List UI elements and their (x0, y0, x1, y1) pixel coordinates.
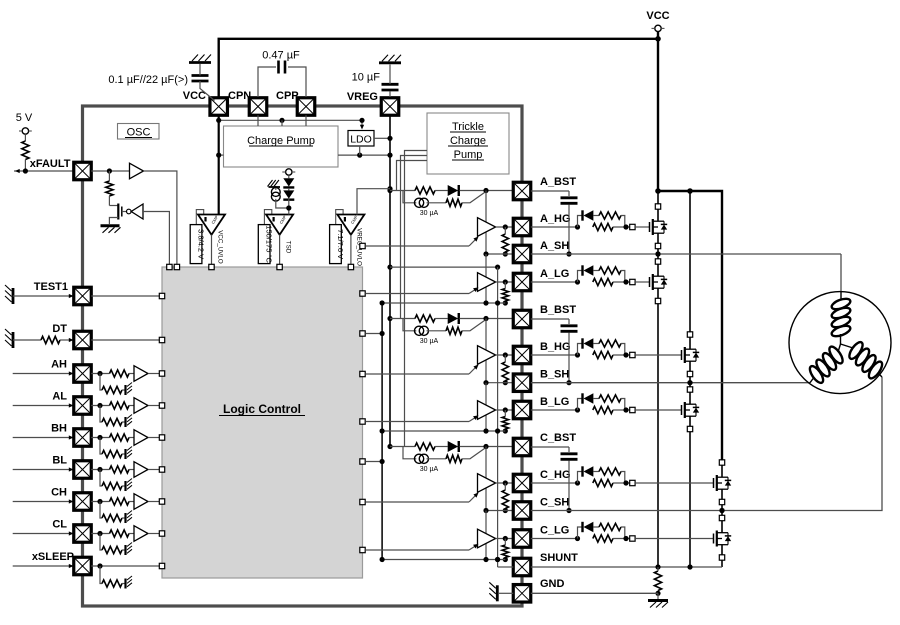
buffer CH (129, 501, 134, 503)
pin C_BST (513, 438, 531, 456)
svg-text:TEST1: TEST1 (34, 281, 68, 293)
wire C_HG output (496, 482, 514, 484)
svg-text:TSD: TSD (284, 241, 291, 254)
svg-text:CH: CH (51, 487, 67, 499)
pin AL (74, 397, 92, 415)
svg-text:B_HG: B_HG (540, 341, 571, 353)
transistor C high-side FET (635, 482, 713, 484)
resistor B_LG gate fast (599, 395, 621, 402)
terminal A_HG gate (630, 224, 635, 229)
wire A LG rail (382, 302, 505, 304)
wire AL internal (91, 405, 109, 407)
VCC supply terminal (655, 25, 661, 31)
wire VCC top rail (657, 32, 659, 191)
wire SHUNT line (531, 566, 722, 568)
wire C_SH to motor (531, 377, 882, 511)
resistor CH series (110, 498, 130, 505)
wire driver rail chain vertical (497, 267, 499, 559)
terminal B_LG gate (630, 407, 635, 412)
resistor AH series (110, 370, 130, 377)
capacitor 0.1uF//22uF at VCC (192, 74, 209, 77)
svg-text:30 µA: 30 µA (420, 466, 439, 473)
svg-text:B_LG: B_LG (540, 396, 569, 408)
wire SHUNT internal (498, 566, 514, 568)
wire A_SH to motor (531, 253, 841, 255)
buffer CL (129, 533, 134, 535)
ground AH pulldown (122, 389, 125, 391)
OSC block (118, 124, 160, 140)
svg-text:Trickle: Trickle (452, 121, 484, 133)
wire CH input (13, 501, 73, 503)
ground AL pulldown (122, 421, 125, 423)
pin xFAULT (74, 162, 92, 180)
pin C_HG (513, 474, 531, 492)
pin CH (74, 493, 92, 511)
wire LDO input with arrow (361, 120, 363, 127)
svg-text:BH: BH (51, 423, 67, 435)
wire C_LG output (496, 538, 514, 540)
wire xSLEEP internal (91, 565, 159, 567)
driver A_HG (485, 191, 487, 255)
svg-text:AL: AL (52, 391, 67, 403)
resistor AL series (110, 402, 130, 409)
wire VREG to VREG_UVLO input (357, 189, 390, 215)
driver A_LG (485, 254, 487, 303)
wire DT to logic (91, 339, 159, 341)
resistor C bootstrap (415, 443, 435, 450)
node B BST junction (483, 316, 488, 321)
svg-text:xSLEEP: xSLEEP (32, 551, 74, 563)
pin BH (74, 429, 92, 447)
wire B_LG output (496, 409, 514, 411)
resistor B bootstrap (415, 315, 435, 322)
wire C low source down (721, 560, 723, 567)
node C SH internal (486, 510, 513, 512)
ground CH pulldown (122, 517, 125, 519)
svg-text:7.1/7.6 V: 7.1/7.6 V (336, 229, 345, 259)
ground for VCC cap (189, 61, 211, 64)
wire A_HG output (496, 226, 514, 228)
wire A_LG output (496, 281, 514, 283)
resistor BL pulldown (100, 470, 102, 487)
pin DT (74, 331, 92, 349)
svg-text:C_BST: C_BST (540, 432, 576, 444)
ground BL pulldown (122, 485, 125, 487)
wire A phase node (657, 249, 659, 259)
svg-text:OSC: OSC (127, 127, 151, 139)
resistor C_LG pulldown (502, 545, 508, 558)
resistor C_HG gate fast (599, 468, 621, 475)
resistor A_LG gate fast (599, 267, 621, 274)
current source B 30uA (403, 319, 416, 331)
ground xFAULT FET (101, 224, 120, 227)
wire BL internal (91, 469, 109, 471)
terminal A_LG gate (630, 279, 635, 284)
wire AL input (13, 405, 73, 407)
svg-text:VREG: VREG (347, 91, 378, 103)
capacitor C bootstrap (561, 452, 578, 455)
wire B phase node (689, 377, 691, 387)
pin TEST1 (74, 287, 92, 305)
ground xSLEEP pulldown (122, 583, 125, 585)
svg-text:CPN: CPN (228, 90, 251, 102)
wire charge-pump feed rail (219, 119, 362, 121)
capacitor A bootstrap (561, 196, 578, 199)
wire CL internal (91, 533, 109, 535)
inductor phase C coil (879, 374, 883, 378)
wire AH to logic (148, 373, 159, 375)
resistor DT (13, 339, 41, 341)
ground BH pulldown (122, 453, 125, 455)
wire A_LG input from logic (360, 291, 365, 296)
transistor B high-side FET (635, 354, 681, 356)
wire C_HG input from logic (360, 499, 365, 504)
pin A_BST (513, 182, 531, 200)
wire AH input (13, 373, 73, 375)
buffer AH (129, 373, 134, 375)
svg-text:DT: DT (52, 323, 67, 335)
svg-text:0.47 µF: 0.47 µF (262, 50, 300, 62)
svg-text:Pump: Pump (454, 149, 483, 161)
wire C phase node (721, 505, 723, 516)
pin A_HG (513, 218, 531, 236)
svg-text:A_LG: A_LG (540, 268, 569, 280)
node shunt bottom (655, 591, 660, 596)
diode A_HG gate (581, 210, 583, 220)
transistor A low-side FET (635, 281, 649, 283)
wire GND line (531, 592, 658, 594)
svg-text:B_SH: B_SH (540, 369, 569, 381)
resistor BH pulldown (100, 438, 102, 455)
pin A_SH (513, 245, 531, 263)
wire CL input (13, 533, 73, 535)
wire logic stub B (360, 331, 365, 336)
pin B_HG (513, 346, 531, 364)
wire CH to logic (148, 501, 159, 503)
pin A_LG (513, 273, 531, 291)
wire BH internal (91, 437, 109, 439)
wire A_HG input from logic (360, 243, 365, 248)
svg-text:C_HG: C_HG (540, 469, 571, 481)
wire VCC internal feed (218, 115, 220, 214)
wire B LG rail (382, 430, 505, 432)
wire TEST1 to logic (91, 295, 159, 297)
motor 3-phase (789, 292, 891, 394)
node B SH internal (486, 382, 513, 384)
pin CL (74, 525, 92, 543)
wire TEST1 input (13, 295, 73, 297)
wire logic signal bus vertical (381, 303, 383, 560)
wire AH internal (91, 373, 109, 375)
Trickle Charge Pump block (427, 113, 509, 174)
transistor C low-side FET (635, 538, 713, 540)
resistor R-5V pullup (24, 134, 26, 141)
diode C_HG gate (581, 466, 583, 476)
driver B_LG (485, 383, 487, 431)
resistor B_HG gate (593, 351, 613, 358)
IC package outline U1 (83, 106, 523, 606)
buffer xFAULT sense (130, 163, 144, 179)
wire C bootstrap cap (531, 446, 569, 448)
wire inverter input from logic (143, 212, 169, 265)
resistor shunt (654, 571, 661, 591)
pin CPP (297, 98, 315, 116)
wire B_LG gate net (531, 409, 578, 411)
pin AH (74, 365, 92, 383)
resistor AH pulldown (100, 374, 102, 391)
capacitor 10uF at VREG (389, 92, 391, 98)
comparator TSD 150/175C (264, 210, 271, 225)
wire C_LG gate net (531, 538, 578, 540)
terminal C_LG gate (630, 536, 635, 541)
svg-text:LDO: LDO (350, 134, 372, 146)
svg-text:C_LG: C_LG (540, 525, 569, 537)
wire charge pump out to VREG rail (338, 154, 390, 156)
svg-text:GND: GND (540, 578, 565, 590)
wire trickle output A (397, 161, 428, 191)
driver C_LG (485, 511, 487, 560)
pin B_SH (513, 374, 531, 392)
diode C_LG gate (581, 522, 583, 532)
wire trickle output C (405, 151, 428, 447)
pin C_LG (513, 530, 531, 548)
svg-text:30 µA: 30 µA (420, 338, 439, 345)
wire A bootstrap cap (531, 190, 569, 192)
svg-text:A_SH: A_SH (540, 240, 569, 252)
terminal C_HG gate (630, 480, 635, 485)
resistor A 30uA path (446, 199, 462, 206)
node C BST junction (483, 444, 488, 449)
svg-text:CPP: CPP (276, 90, 299, 102)
wire CPN to charge pump (257, 115, 259, 126)
resistor A_LG gate (593, 278, 613, 285)
wire logic stub C (360, 459, 365, 464)
wire trickle output B (401, 156, 428, 319)
svg-text:5 V: 5 V (16, 112, 33, 124)
svg-text:CL: CL (52, 519, 67, 531)
terminal circle above TSD diodes (286, 169, 292, 175)
wire CL to logic (148, 533, 159, 535)
wire VREG-to-driver rail horizontal (390, 266, 498, 268)
resistor A_HG gate (593, 223, 613, 230)
wire buffer to logic (144, 171, 177, 264)
svg-text:150/175 °C: 150/175 °C (265, 225, 274, 263)
wire CPP to charge pump (305, 115, 307, 126)
svg-text:BL: BL (52, 455, 67, 467)
wire BL input (13, 469, 73, 471)
driver C_HG (485, 447, 487, 511)
resistor B_LG gate (593, 406, 613, 413)
wire A_HG gate net (531, 226, 578, 228)
svg-text:SHUNT: SHUNT (540, 552, 578, 564)
resistor A_HG pulldown (502, 234, 508, 252)
LDO block (348, 131, 374, 147)
buffer AL (129, 405, 134, 407)
wire LDO out to VREG rail (374, 137, 390, 139)
svg-text:A_BST: A_BST (540, 176, 576, 188)
svg-text:0.1 µF//22 µF(>): 0.1 µF//22 µF(>) (108, 74, 188, 86)
resistor BL series (110, 466, 130, 473)
diode A bootstrap (448, 185, 458, 196)
current source TSD bias (271, 188, 280, 197)
wire B bootstrap feed (390, 318, 415, 320)
inverter xFAULT gate drive (127, 209, 132, 214)
svg-text:xFAULT: xFAULT (30, 158, 71, 170)
wire VCC rail to half bridges (658, 191, 722, 460)
pin B_BST (513, 310, 531, 328)
pin VREG (381, 98, 399, 116)
Logic Control block (162, 267, 363, 578)
ground hatch TSD bias (268, 180, 273, 187)
diode C bootstrap (448, 441, 458, 452)
resistor C_HG pulldown (502, 490, 508, 509)
pin C_SH (513, 502, 531, 520)
resistor C_LG gate (593, 535, 613, 542)
ground TEST1 (12, 288, 15, 304)
node VCC-top junction (655, 36, 661, 42)
resistor A bootstrap (415, 187, 435, 194)
resistor A_LG pulldown (502, 289, 508, 302)
svg-text:C_SH: C_SH (540, 497, 569, 509)
wire B_LG input from logic (360, 419, 365, 424)
pin CPN (249, 98, 267, 116)
wire xSLEEP input (13, 565, 73, 567)
inductor phase A coil (840, 292, 842, 300)
diode D2 TSD chain (288, 188, 290, 190)
node A SH internal (486, 253, 513, 255)
buffer BL (129, 469, 134, 471)
terminal B_HG gate (630, 352, 635, 357)
wire B_HG gate net (531, 354, 578, 356)
resistor AL pulldown (100, 406, 102, 423)
comparator VCC_UVLO 3.8/4.2V (196, 210, 203, 225)
svg-text:B_BST: B_BST (540, 304, 576, 316)
pin xSLEEP (74, 557, 92, 575)
ground DT (12, 332, 15, 348)
wire B bootstrap cap (531, 318, 569, 320)
diode D1 TSD chain (288, 175, 290, 178)
diode B_HG gate (581, 338, 583, 348)
svg-text:Logic Control: Logic Control (223, 402, 301, 416)
wire A low source down (657, 304, 659, 567)
ground GND pin (496, 585, 499, 601)
resistor B_HG gate fast (599, 340, 621, 347)
wire BL to logic (148, 469, 159, 471)
wire C bootstrap feed (390, 446, 415, 448)
resistor A_HG gate fast (599, 212, 621, 219)
wire xFAULT internal (91, 170, 129, 172)
svg-text:Charge Pump: Charge Pump (247, 135, 315, 147)
comparator VREG_UVLO 7.1/7.6V (336, 210, 343, 225)
pin VCC (210, 98, 228, 116)
diode A_LG gate (581, 265, 583, 275)
svg-text:A_HG: A_HG (540, 213, 571, 225)
wire TSD node (276, 199, 289, 208)
pin SHUNT (513, 558, 531, 576)
wire VREG rail vertical (389, 115, 391, 446)
capacitor 0.47uF CPN-CPP (258, 67, 276, 97)
resistor C_HG gate (593, 479, 613, 486)
ground shunt (657, 593, 659, 599)
resistor B_LG pulldown (502, 417, 508, 430)
diode B_LG gate (581, 393, 583, 403)
Charge Pump block (224, 126, 339, 167)
wire C_HG gate net (531, 482, 578, 484)
wire BH to logic (148, 437, 159, 439)
resistor xSLEEP pulldown (100, 566, 102, 584)
wire CH internal (91, 501, 109, 503)
current source A 30uA (403, 191, 416, 203)
resistor C 30uA path (446, 455, 462, 462)
resistor CL series (110, 530, 130, 537)
resistor CL pulldown (100, 534, 102, 551)
transistor B low-side FET (635, 409, 681, 411)
resistor B_HG pulldown (502, 362, 508, 381)
wire AL to logic (148, 405, 159, 407)
wire C LG rail (382, 559, 505, 561)
wire A bootstrap feed (390, 190, 415, 192)
wire C_LG input from logic (360, 547, 365, 552)
svg-text:VCC: VCC (183, 90, 206, 102)
resistor CH pulldown (100, 502, 102, 519)
capacitor B bootstrap (561, 324, 578, 327)
resistor BH series (110, 434, 130, 441)
ground for 10uF cap (379, 61, 401, 64)
resistor B 30uA path (446, 327, 462, 334)
pin GND (513, 585, 531, 603)
resistor xFAULT pulldown (106, 181, 113, 196)
wire B_HG output (496, 354, 514, 356)
wire B low source down (689, 432, 691, 567)
svg-text:30 µA: 30 µA (420, 210, 439, 217)
wire xFAULT output (14, 170, 74, 172)
driver B_HG (485, 319, 487, 383)
pin B_LG (513, 401, 531, 419)
wire B_HG input from logic (360, 371, 365, 376)
node A BST junction (483, 188, 488, 193)
svg-text:10 µF: 10 µF (352, 72, 381, 84)
svg-text:AH: AH (51, 359, 67, 371)
resistor C_LG gate fast (599, 523, 621, 530)
ground CL pulldown (122, 549, 125, 551)
svg-text:VCC: VCC (646, 10, 669, 22)
svg-text:VCC_UVLO: VCC_UVLO (216, 230, 223, 264)
svg-text:Charge: Charge (450, 135, 486, 147)
current source C 30uA (403, 447, 416, 459)
diode B bootstrap (448, 313, 458, 324)
svg-text:3.8/4.2 V: 3.8/4.2 V (197, 229, 206, 259)
wire A_LG gate net (531, 281, 578, 283)
inductor phase B coil (810, 378, 814, 383)
buffer BH (129, 437, 134, 439)
wire BH input (13, 437, 73, 439)
transistor Q1 open-drain (109, 205, 118, 207)
transistor A high-side FET (635, 226, 649, 228)
wire VCC to charge pump left (219, 154, 224, 156)
wire B_SH to motor (531, 382, 810, 384)
pin BL (74, 461, 92, 479)
